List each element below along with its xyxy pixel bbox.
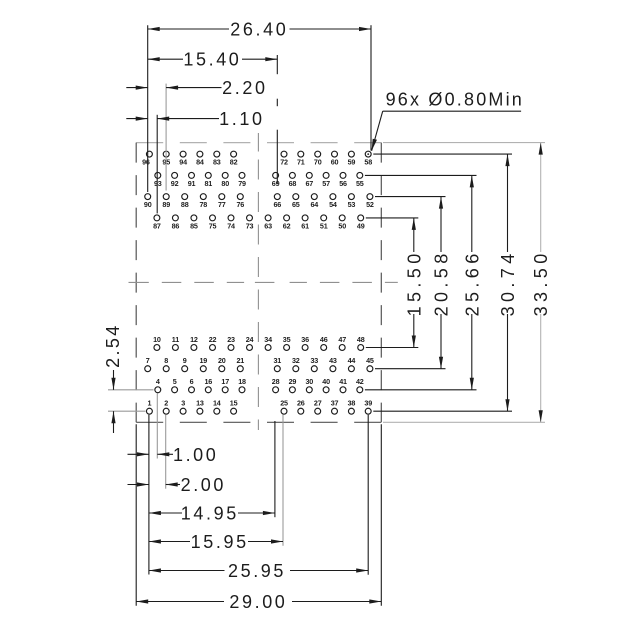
svg-text:70: 70 [314, 158, 322, 167]
svg-text:41: 41 [339, 377, 347, 386]
svg-text:22: 22 [209, 335, 217, 344]
svg-text:73: 73 [246, 222, 254, 231]
svg-text:38: 38 [348, 399, 356, 408]
svg-text:12: 12 [190, 335, 198, 344]
svg-text:82: 82 [230, 158, 238, 167]
svg-text:23: 23 [227, 335, 235, 344]
svg-text:20.58: 20.58 [432, 249, 452, 316]
svg-text:9: 9 [183, 356, 187, 365]
svg-text:37: 37 [331, 399, 339, 408]
svg-text:25: 25 [280, 399, 288, 408]
svg-text:59: 59 [348, 158, 356, 167]
svg-text:7: 7 [146, 356, 150, 365]
svg-text:93: 93 [154, 179, 162, 188]
svg-text:36: 36 [301, 335, 309, 344]
svg-text:69: 69 [272, 179, 280, 188]
svg-text:63: 63 [264, 222, 272, 231]
svg-text:15: 15 [230, 399, 238, 408]
svg-text:96x Ø0.80Min: 96x Ø0.80Min [386, 89, 524, 109]
svg-text:45: 45 [366, 356, 374, 365]
svg-text:57: 57 [322, 179, 330, 188]
svg-text:28: 28 [272, 377, 280, 386]
svg-text:88: 88 [181, 200, 189, 209]
svg-text:80: 80 [221, 179, 229, 188]
svg-text:48: 48 [357, 335, 365, 344]
svg-text:54: 54 [329, 200, 337, 209]
svg-text:68: 68 [289, 179, 297, 188]
svg-text:10: 10 [153, 335, 161, 344]
svg-text:15.40: 15.40 [183, 50, 241, 70]
svg-text:32: 32 [292, 356, 300, 365]
svg-text:79: 79 [238, 179, 246, 188]
svg-text:62: 62 [283, 222, 291, 231]
svg-text:31: 31 [273, 356, 281, 365]
svg-text:25.95: 25.95 [228, 561, 286, 581]
svg-text:35: 35 [283, 335, 291, 344]
svg-text:87: 87 [153, 222, 161, 231]
svg-text:78: 78 [199, 200, 207, 209]
svg-text:52: 52 [366, 200, 374, 209]
svg-text:53: 53 [348, 200, 356, 209]
svg-text:46: 46 [320, 335, 328, 344]
svg-text:6: 6 [190, 377, 194, 386]
svg-text:90: 90 [144, 200, 152, 209]
svg-text:85: 85 [190, 222, 198, 231]
svg-text:19: 19 [199, 356, 207, 365]
svg-text:91: 91 [188, 179, 196, 188]
svg-text:15.95: 15.95 [191, 532, 249, 552]
svg-text:26.40: 26.40 [230, 20, 288, 40]
svg-text:2.54: 2.54 [103, 323, 123, 368]
svg-text:21: 21 [236, 356, 244, 365]
svg-text:25.66: 25.66 [462, 249, 482, 316]
svg-text:61: 61 [301, 222, 309, 231]
svg-text:27: 27 [314, 399, 322, 408]
svg-text:51: 51 [320, 222, 328, 231]
svg-text:49: 49 [357, 222, 365, 231]
svg-text:55: 55 [356, 179, 364, 188]
svg-text:30.74: 30.74 [498, 249, 518, 316]
svg-text:58: 58 [364, 158, 372, 167]
svg-text:5: 5 [173, 377, 177, 386]
svg-text:14: 14 [213, 399, 221, 408]
svg-text:96: 96 [142, 158, 150, 167]
svg-text:4: 4 [156, 377, 160, 386]
svg-text:64: 64 [310, 200, 318, 209]
svg-text:40: 40 [322, 377, 330, 386]
svg-text:71: 71 [297, 158, 305, 167]
svg-text:33: 33 [310, 356, 318, 365]
svg-text:18: 18 [238, 377, 246, 386]
svg-text:2.20: 2.20 [222, 78, 267, 98]
svg-text:1.10: 1.10 [219, 109, 264, 129]
svg-text:29: 29 [289, 377, 297, 386]
svg-text:2: 2 [164, 399, 168, 408]
svg-text:13: 13 [196, 399, 204, 408]
svg-text:17: 17 [221, 377, 229, 386]
svg-text:8: 8 [164, 356, 168, 365]
svg-text:89: 89 [162, 200, 170, 209]
svg-text:2.00: 2.00 [181, 475, 226, 495]
svg-text:84: 84 [196, 158, 204, 167]
svg-text:67: 67 [305, 179, 313, 188]
svg-text:77: 77 [218, 200, 226, 209]
svg-text:83: 83 [213, 158, 221, 167]
svg-text:86: 86 [172, 222, 180, 231]
svg-text:39: 39 [364, 399, 372, 408]
svg-text:33.50: 33.50 [531, 249, 551, 316]
svg-text:1.00: 1.00 [173, 445, 218, 465]
svg-text:1: 1 [147, 399, 151, 408]
svg-text:26: 26 [297, 399, 305, 408]
svg-text:50: 50 [338, 222, 346, 231]
svg-text:20: 20 [218, 356, 226, 365]
svg-text:74: 74 [227, 222, 235, 231]
svg-text:60: 60 [331, 158, 339, 167]
svg-text:56: 56 [339, 179, 347, 188]
svg-text:3: 3 [181, 399, 185, 408]
svg-text:11: 11 [172, 335, 179, 344]
svg-text:75: 75 [209, 222, 217, 231]
svg-text:29.00: 29.00 [229, 592, 287, 612]
svg-text:16: 16 [204, 377, 212, 386]
svg-text:92: 92 [171, 179, 179, 188]
svg-text:44: 44 [348, 356, 356, 365]
svg-text:76: 76 [236, 200, 244, 209]
svg-text:15.50: 15.50 [404, 249, 424, 316]
svg-text:66: 66 [273, 200, 281, 209]
svg-text:43: 43 [329, 356, 337, 365]
svg-text:42: 42 [356, 377, 364, 386]
svg-text:81: 81 [204, 179, 212, 188]
svg-text:24: 24 [246, 335, 254, 344]
svg-text:65: 65 [292, 200, 300, 209]
svg-text:47: 47 [338, 335, 346, 344]
svg-text:72: 72 [280, 158, 288, 167]
svg-text:34: 34 [264, 335, 272, 344]
svg-text:94: 94 [179, 158, 187, 167]
svg-text:30: 30 [305, 377, 313, 386]
svg-text:14.95: 14.95 [181, 504, 239, 524]
